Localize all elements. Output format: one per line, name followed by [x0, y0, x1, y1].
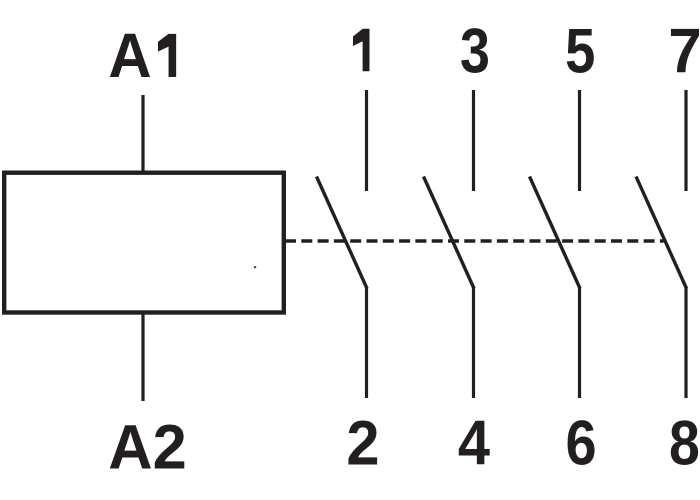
wire: terminal 5 — [578, 90, 581, 191]
contact 3-4 moving blade — [424, 177, 475, 289]
svg-text:2: 2 — [346, 407, 379, 478]
wire: coil to terminal A2 — [141, 313, 144, 401]
wire: terminal 3 — [472, 90, 475, 191]
svg-text:A: A — [108, 21, 151, 92]
svg-text:6: 6 — [565, 407, 596, 478]
svg-text:8: 8 — [669, 407, 700, 478]
wire: terminal 7 — [684, 90, 687, 191]
svg-text:7: 7 — [668, 16, 700, 87]
contact 1-2 moving blade — [317, 177, 368, 289]
contact 5-6 moving blade — [530, 177, 581, 289]
wire: terminal 1 — [365, 90, 368, 191]
contact 7-8 moving blade — [636, 177, 687, 289]
mechanical linkage (dashed line) — [285, 239, 664, 242]
wire: terminal A1 to coil — [141, 95, 144, 172]
wire: terminal 6 — [578, 288, 581, 398]
svg-text:3: 3 — [460, 16, 490, 86]
svg-text:A2: A2 — [108, 413, 186, 483]
wire: terminal 2 — [365, 288, 368, 398]
wire: terminal 4 — [472, 288, 475, 398]
wire: terminal 8 — [684, 288, 687, 398]
label 1 — [353, 29, 370, 71]
svg-text:4: 4 — [458, 407, 490, 478]
svg-text:5: 5 — [565, 17, 595, 87]
contactor coil (rectangle) — [4, 173, 284, 313]
